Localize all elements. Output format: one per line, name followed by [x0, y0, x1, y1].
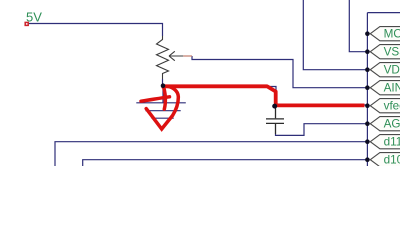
svg-text:d10: d10	[384, 153, 400, 166]
svg-text:VDD: VDD	[384, 63, 400, 76]
svg-text:5V: 5V	[26, 10, 42, 25]
svg-text:d11: d11	[384, 135, 400, 148]
svg-text:MOS: MOS	[384, 27, 400, 40]
svg-text:vfeed: vfeed	[384, 99, 400, 112]
svg-text:VSS: VSS	[384, 45, 400, 58]
svg-text:AGN: AGN	[384, 117, 400, 130]
svg-text:AIN: AIN	[384, 81, 400, 94]
